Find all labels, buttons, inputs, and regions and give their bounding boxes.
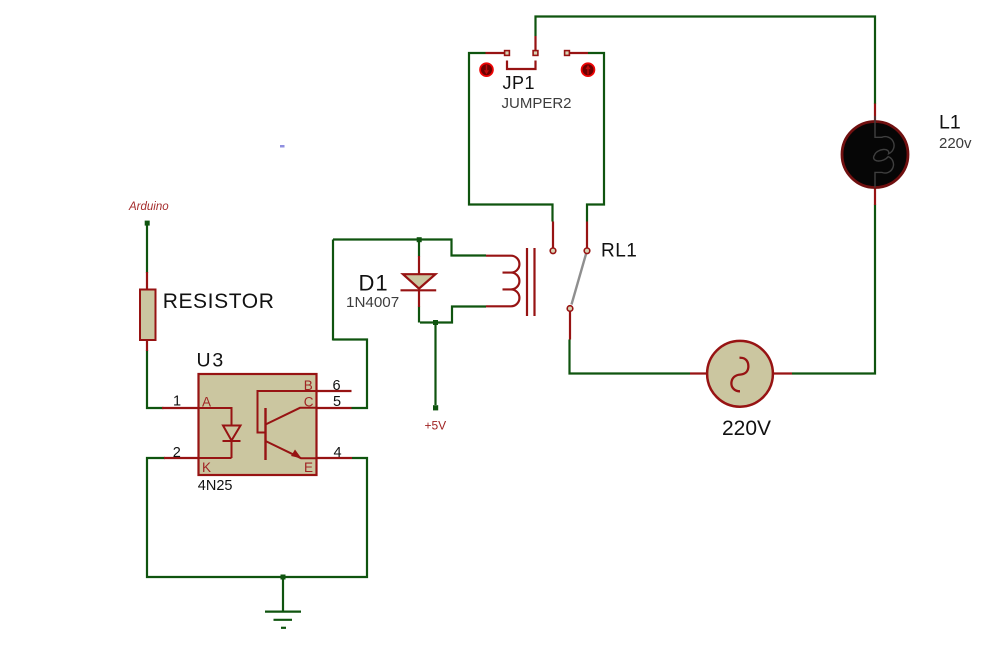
svg-text:+5V: +5V [425,419,447,433]
svg-text:L1: L1 [939,111,961,133]
svg-text:K: K [202,460,211,475]
svg-text:220V: 220V [722,417,771,440]
svg-text:RL1: RL1 [601,240,637,261]
svg-text:D1: D1 [359,271,389,296]
svg-text:Arduino: Arduino [128,201,169,213]
svg-text:5: 5 [333,394,341,410]
svg-text:1N4007: 1N4007 [346,294,399,311]
svg-text:U3: U3 [197,350,226,372]
svg-text:E: E [304,460,313,475]
svg-text:B: B [304,378,313,393]
svg-text:1: 1 [173,394,181,410]
svg-text:A: A [202,394,211,409]
svg-text:C: C [304,394,314,409]
svg-text:4N25: 4N25 [198,478,233,494]
svg-text:2: 2 [173,445,181,461]
svg-text:JP1: JP1 [503,73,536,93]
svg-text:JUMPER2: JUMPER2 [502,95,572,112]
svg-text:RESISTOR: RESISTOR [163,290,275,313]
svg-text:220v: 220v [939,135,972,152]
svg-text:6: 6 [333,378,341,394]
svg-text:4: 4 [334,445,342,461]
